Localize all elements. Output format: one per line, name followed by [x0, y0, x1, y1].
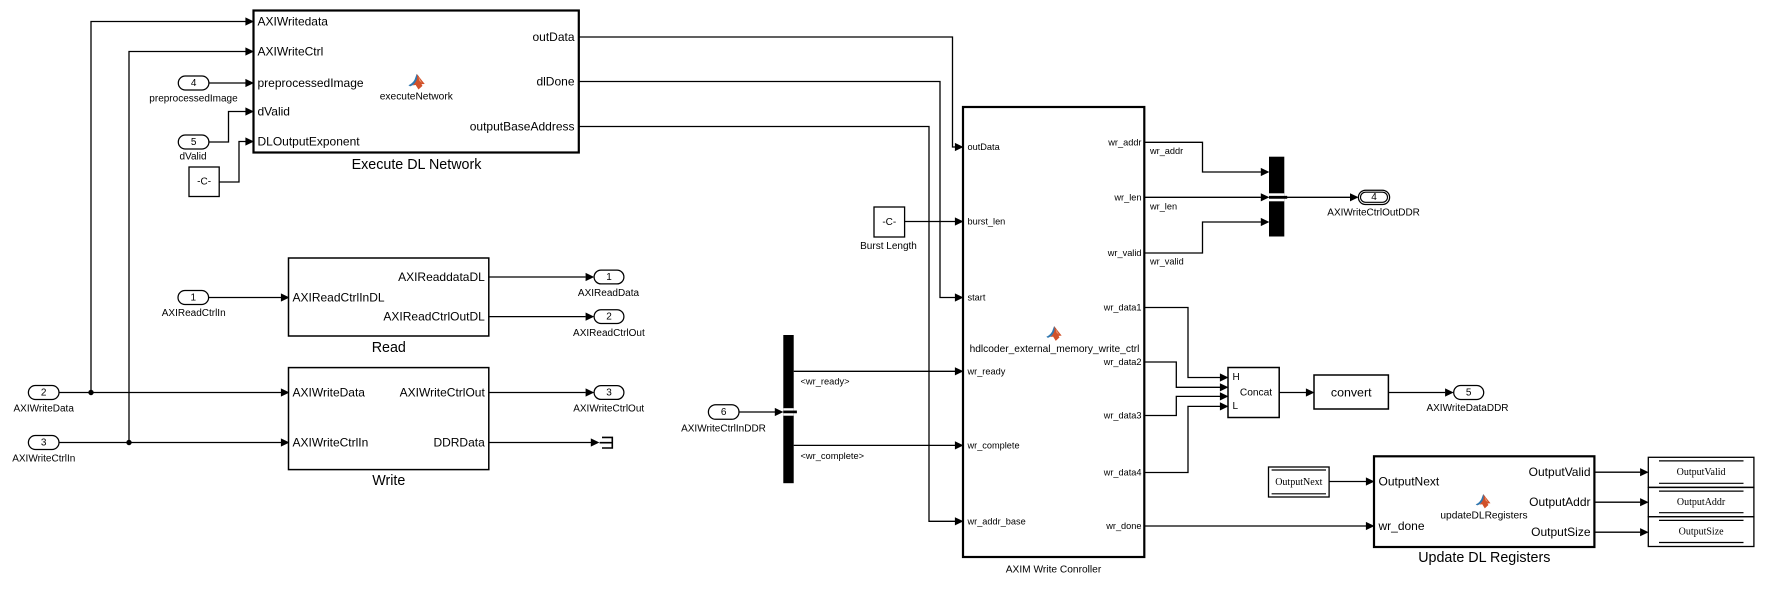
svg-text:wr_done: wr_done: [1105, 521, 1141, 531]
svg-text:Burst Length: Burst Length: [860, 241, 917, 252]
svg-text:AXIWriteCtrlOutDDR: AXIWriteCtrlOutDDR: [1327, 207, 1420, 218]
svg-text:hdlcoder_external_memory_write: hdlcoder_external_memory_write_ctrl: [970, 344, 1140, 355]
svg-text:AXIWritedata: AXIWritedata: [258, 15, 329, 29]
svg-text:3: 3: [606, 387, 612, 398]
svg-text:<wr_ready>: <wr_ready>: [801, 376, 850, 386]
svg-text:AXIReadCtrlOut: AXIReadCtrlOut: [573, 328, 645, 339]
svg-text:updateDLRegisters: updateDLRegisters: [1440, 511, 1527, 522]
svg-text:dValid: dValid: [179, 151, 206, 162]
svg-text:1: 1: [191, 292, 197, 303]
svg-text:DDRData: DDRData: [433, 436, 485, 450]
svg-text:wr_len: wr_len: [1149, 202, 1177, 212]
svg-text:outData: outData: [532, 30, 574, 44]
svg-text:2: 2: [41, 387, 47, 398]
svg-text:preprocessedImage: preprocessedImage: [149, 93, 238, 104]
svg-text:DLOutputExponent: DLOutputExponent: [258, 135, 361, 149]
svg-text:Update DL Registers: Update DL Registers: [1418, 550, 1550, 566]
svg-text:4: 4: [1371, 192, 1377, 203]
svg-text:Read: Read: [372, 340, 406, 356]
svg-text:AXIReadCtrlInDL: AXIReadCtrlInDL: [293, 291, 385, 305]
svg-text:dValid: dValid: [258, 105, 290, 119]
svg-text:-C-: -C-: [197, 177, 211, 188]
svg-text:5: 5: [191, 137, 197, 148]
svg-text:AXIWriteCtrlOut: AXIWriteCtrlOut: [400, 386, 486, 400]
svg-text:outputBaseAddress: outputBaseAddress: [470, 120, 575, 134]
svg-text:wr_len: wr_len: [1113, 192, 1141, 202]
svg-text:OutputNext: OutputNext: [1275, 477, 1322, 488]
svg-text:wr_data2: wr_data2: [1103, 357, 1142, 367]
svg-text:start: start: [968, 293, 986, 303]
svg-text:AXIReadCtrlIn: AXIReadCtrlIn: [162, 308, 226, 319]
svg-text:3: 3: [41, 437, 47, 448]
svg-text:OutputValid: OutputValid: [1529, 465, 1591, 479]
svg-text:AXIWriteCtrlIn: AXIWriteCtrlIn: [12, 453, 75, 464]
svg-text:AXIWriteCtrl: AXIWriteCtrl: [258, 45, 324, 59]
svg-text:AXIWriteCtrlOut: AXIWriteCtrlOut: [573, 403, 644, 414]
svg-text:-C-: -C-: [882, 217, 896, 228]
svg-text:dlDone: dlDone: [536, 75, 574, 89]
svg-text:L: L: [1233, 401, 1239, 412]
svg-text:5: 5: [1466, 387, 1472, 398]
svg-text:OutputSize: OutputSize: [1531, 525, 1591, 539]
svg-text:Concat: Concat: [1240, 387, 1272, 398]
svg-text:OutputSize: OutputSize: [1679, 526, 1725, 537]
svg-text:4: 4: [191, 78, 197, 89]
svg-text:AXIWriteCtrlIn: AXIWriteCtrlIn: [293, 436, 369, 450]
svg-text:wr_addr: wr_addr: [1149, 146, 1183, 156]
svg-text:AXIWriteData: AXIWriteData: [14, 403, 75, 414]
svg-text:wr_data1: wr_data1: [1103, 303, 1142, 313]
svg-text:AXIReadCtrlOutDL: AXIReadCtrlOutDL: [383, 310, 485, 324]
svg-text:wr_complete: wr_complete: [967, 440, 1020, 450]
svg-text:wr_data3: wr_data3: [1103, 411, 1142, 421]
svg-text:OutputAddr: OutputAddr: [1677, 497, 1726, 508]
svg-text:preprocessedImage: preprocessedImage: [258, 76, 364, 90]
svg-text:AXIReadData: AXIReadData: [578, 288, 640, 299]
svg-text:OutputNext: OutputNext: [1379, 475, 1440, 489]
svg-text:Write: Write: [372, 473, 405, 489]
svg-text:AXIM Write Conroller: AXIM Write Conroller: [1006, 564, 1102, 575]
svg-text:wr_valid: wr_valid: [1107, 248, 1142, 258]
svg-text:executeNetwork: executeNetwork: [380, 92, 454, 103]
svg-text:wr_data4: wr_data4: [1103, 468, 1142, 478]
svg-text:wr_valid: wr_valid: [1149, 257, 1184, 267]
svg-text:wr_done: wr_done: [1378, 519, 1425, 533]
svg-text:outData: outData: [968, 142, 1001, 152]
svg-text:convert: convert: [1331, 386, 1372, 400]
svg-text:AXIWriteDataDDR: AXIWriteDataDDR: [1426, 403, 1508, 414]
svg-text:AXIWriteCtrlInDDR: AXIWriteCtrlInDDR: [681, 423, 766, 434]
svg-text:6: 6: [721, 407, 727, 418]
svg-text:<wr_complete>: <wr_complete>: [801, 451, 865, 461]
svg-text:2: 2: [606, 311, 612, 322]
svg-text:AXIWriteData: AXIWriteData: [293, 386, 366, 400]
svg-text:OutputValid: OutputValid: [1677, 467, 1726, 478]
svg-text:wr_ready: wr_ready: [967, 366, 1006, 376]
svg-text:wr_addr_base: wr_addr_base: [967, 516, 1026, 526]
svg-text:Execute DL Network: Execute DL Network: [352, 157, 483, 173]
svg-text:1: 1: [606, 272, 612, 283]
svg-text:OutputAddr: OutputAddr: [1529, 495, 1590, 509]
svg-text:burst_len: burst_len: [968, 217, 1006, 227]
svg-text:wr_addr: wr_addr: [1107, 137, 1141, 147]
svg-text:H: H: [1233, 372, 1240, 383]
svg-text:AXIReaddataDL: AXIReaddataDL: [398, 270, 485, 284]
